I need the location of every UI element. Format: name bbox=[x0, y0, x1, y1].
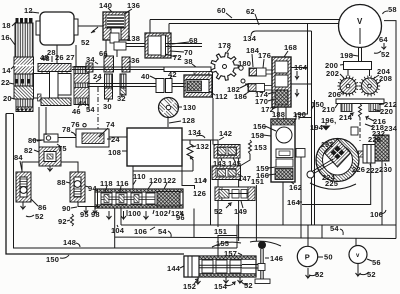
svg-text:64: 64 bbox=[379, 35, 388, 44]
label 26 bbox=[55, 53, 64, 62]
label 86 bbox=[31, 199, 47, 212]
svg-text:54: 54 bbox=[158, 227, 167, 236]
label 130 bbox=[177, 103, 196, 112]
svg-text:194: 194 bbox=[310, 123, 324, 132]
svg-text:96: 96 bbox=[176, 213, 185, 222]
svg-text:192: 192 bbox=[321, 142, 333, 149]
label 202 bbox=[326, 69, 344, 78]
svg-text:122: 122 bbox=[163, 176, 176, 185]
selector lever 146 bbox=[255, 241, 270, 284]
svg-text:128: 128 bbox=[182, 116, 195, 125]
svg-text:38: 38 bbox=[184, 57, 193, 66]
label 66 bbox=[99, 49, 108, 58]
wire motor to solenoid bbox=[78, 25, 103, 27]
shaft 38 bbox=[72, 67, 164, 70]
label 58 bbox=[383, 5, 397, 14]
svg-text:226: 226 bbox=[352, 165, 365, 174]
drain v 52 bbox=[356, 264, 376, 279]
svg-text:153: 153 bbox=[254, 143, 267, 152]
svg-text:100: 100 bbox=[128, 209, 141, 218]
labels 95 98 bbox=[80, 210, 100, 219]
wire 142 bbox=[190, 129, 232, 145]
label 152 bottom left bbox=[183, 279, 198, 291]
bearing 42 bbox=[166, 70, 177, 93]
svg-text:162: 162 bbox=[289, 183, 302, 192]
svg-text:157: 157 bbox=[224, 249, 237, 258]
svg-text:142: 142 bbox=[219, 129, 232, 138]
bearing 40 bbox=[141, 72, 164, 93]
svg-text:52: 52 bbox=[381, 50, 390, 59]
drain arrows bank1 bbox=[107, 211, 149, 219]
label 220 bbox=[374, 107, 393, 116]
svg-text:84: 84 bbox=[14, 153, 23, 162]
label 148 bbox=[63, 238, 80, 247]
shaft 24 lower bbox=[88, 84, 184, 87]
link lever to pump 112 bbox=[212, 72, 214, 99]
label 230 bbox=[379, 163, 392, 174]
svg-text:188: 188 bbox=[272, 110, 285, 119]
svg-text:24: 24 bbox=[93, 72, 102, 81]
svg-text:36: 36 bbox=[131, 56, 140, 65]
svg-text:40: 40 bbox=[141, 72, 150, 81]
shift valve bank 144 bbox=[184, 256, 258, 277]
flywheel clutch 224 bbox=[316, 139, 359, 182]
spring 153 bbox=[240, 140, 267, 166]
label 144 bbox=[167, 264, 184, 273]
svg-text:90: 90 bbox=[62, 204, 71, 213]
svg-text:220: 220 bbox=[380, 107, 393, 116]
svg-text:114: 114 bbox=[194, 176, 207, 185]
svg-text:26: 26 bbox=[55, 53, 64, 62]
crosshead 200 bbox=[325, 61, 372, 70]
label 214 bbox=[339, 113, 353, 122]
label 120 bbox=[148, 176, 162, 189]
label 124 bbox=[169, 209, 185, 218]
label 147 bbox=[238, 174, 251, 183]
pilot circle 80 bbox=[44, 134, 76, 142]
label 30 bbox=[103, 98, 112, 111]
wires left column bbox=[6, 107, 78, 172]
svg-text:74: 74 bbox=[106, 120, 115, 129]
label 114 bbox=[194, 176, 207, 185]
label 132 bbox=[192, 142, 209, 151]
bottom bus B bbox=[301, 225, 356, 246]
label 70 bbox=[170, 48, 193, 57]
svg-text:88: 88 bbox=[57, 178, 66, 187]
label 116 bbox=[116, 179, 129, 192]
label 74 bbox=[99, 120, 115, 137]
label 76 bbox=[71, 120, 86, 129]
svg-text:151: 151 bbox=[214, 227, 227, 236]
label 84 bbox=[14, 153, 23, 171]
svg-text:46: 46 bbox=[72, 107, 81, 116]
label 228 bbox=[368, 135, 381, 144]
svg-text:56: 56 bbox=[372, 258, 381, 267]
svg-text:98: 98 bbox=[91, 210, 100, 219]
label 224 bbox=[322, 173, 336, 182]
label 212 bbox=[379, 100, 397, 109]
arrow 52 solenoid bbox=[81, 27, 98, 47]
servo 74/24 bbox=[76, 129, 127, 147]
svg-text:70: 70 bbox=[184, 48, 193, 57]
svg-text:140: 140 bbox=[99, 1, 112, 10]
ground 52 left bbox=[21, 202, 44, 221]
label 14 bbox=[2, 66, 14, 75]
label 34 bbox=[86, 55, 98, 64]
label 178 bbox=[218, 41, 231, 52]
svg-text:76: 76 bbox=[71, 120, 80, 129]
svg-text:166: 166 bbox=[256, 171, 269, 180]
clutch slider bbox=[296, 149, 305, 158]
label 102 bbox=[153, 209, 168, 218]
frame 150 outer bbox=[6, 114, 184, 255]
label 156 bbox=[253, 122, 276, 131]
svg-text:12: 12 bbox=[24, 6, 33, 15]
label 216 bbox=[366, 116, 386, 126]
svg-text:116: 116 bbox=[116, 179, 129, 188]
valve 82 bbox=[39, 147, 61, 171]
wire connectors 168 down bbox=[278, 107, 286, 119]
V gauge 58 bbox=[339, 5, 382, 48]
label 78 bbox=[62, 125, 76, 136]
drain P 52 bbox=[306, 268, 324, 279]
svg-text:132: 132 bbox=[196, 142, 209, 151]
label 96 bbox=[176, 211, 185, 222]
svg-text:186: 186 bbox=[234, 92, 247, 101]
label 54 bottom bbox=[330, 224, 343, 235]
label 134 bbox=[243, 34, 257, 43]
label 54 manifold bbox=[158, 227, 171, 237]
label 18 bbox=[2, 21, 16, 30]
svg-text:149: 149 bbox=[234, 207, 247, 216]
motor 12 bbox=[24, 6, 78, 45]
pump P 50 bbox=[297, 246, 317, 266]
svg-text:78: 78 bbox=[62, 125, 71, 134]
wire solenoid to gear 66 bbox=[105, 40, 107, 56]
label 172 bbox=[261, 105, 277, 114]
label 27 bbox=[66, 53, 75, 62]
svg-text:158: 158 bbox=[251, 131, 264, 140]
svg-text:58: 58 bbox=[388, 5, 397, 14]
wire actuator down bbox=[381, 161, 383, 225]
valve 88 bbox=[70, 172, 85, 202]
svg-text:104: 104 bbox=[111, 226, 125, 235]
label 28 bbox=[47, 48, 56, 62]
label 164 bbox=[294, 63, 308, 96]
rack hatch under lever bbox=[194, 72, 209, 76]
shaft motor to spline column bbox=[75, 45, 77, 67]
svg-text:225: 225 bbox=[325, 179, 338, 188]
svg-text:130: 130 bbox=[183, 103, 196, 112]
svg-text:126: 126 bbox=[193, 189, 206, 198]
wire 90 bbox=[62, 202, 100, 213]
label 176 bbox=[258, 51, 271, 68]
label 72 bbox=[165, 53, 182, 62]
label 170 bbox=[255, 97, 274, 106]
svg-text:52: 52 bbox=[81, 38, 90, 47]
svg-text:150: 150 bbox=[46, 255, 59, 264]
damper box 214 bbox=[351, 127, 358, 135]
drain manifold under bank bbox=[115, 209, 396, 249]
label 100 bbox=[127, 209, 141, 218]
label 46 bbox=[72, 104, 81, 116]
svg-text:20: 20 bbox=[3, 94, 12, 103]
svg-text:164: 164 bbox=[287, 198, 301, 207]
valve block 168 bbox=[272, 57, 291, 107]
governor body bbox=[341, 104, 380, 121]
label 118 bbox=[100, 179, 113, 192]
shaft 44/54 dash-dot bbox=[88, 64, 90, 114]
svg-text:68: 68 bbox=[189, 36, 198, 45]
label 151 mid bbox=[251, 177, 264, 186]
label 234 bbox=[384, 124, 398, 133]
label 188 bbox=[272, 110, 285, 119]
label 192 bbox=[321, 142, 333, 149]
controller box 108 bbox=[127, 128, 182, 166]
svg-text:86: 86 bbox=[38, 203, 47, 212]
frame 148 inner bbox=[14, 114, 238, 249]
wire 164 drain bbox=[302, 163, 371, 205]
governor link dashed bbox=[359, 122, 361, 141]
resistor 132 bbox=[133, 140, 195, 189]
label 128 bbox=[169, 116, 195, 125]
pilot valve 182/186 bbox=[241, 79, 272, 92]
label 154 bbox=[214, 282, 235, 291]
label 50 bbox=[318, 253, 333, 262]
svg-text:62: 62 bbox=[246, 7, 255, 16]
label 24 bbox=[93, 72, 102, 82]
label 54 bbox=[86, 105, 95, 114]
label 68 bbox=[172, 36, 198, 45]
label 32 bbox=[117, 94, 126, 103]
svg-text:14: 14 bbox=[2, 66, 11, 75]
svg-text:60: 60 bbox=[217, 6, 226, 15]
label 174 bbox=[255, 90, 274, 99]
label 218 bbox=[365, 123, 384, 132]
svg-text:102: 102 bbox=[155, 209, 168, 218]
svg-text:30: 30 bbox=[103, 102, 112, 111]
label 82 bbox=[24, 146, 39, 155]
svg-text:52: 52 bbox=[244, 281, 253, 290]
clutch arm + pivot bbox=[307, 159, 334, 178]
governor bar 210 bbox=[322, 99, 384, 114]
label 110 bbox=[133, 172, 146, 185]
svg-text:190: 190 bbox=[293, 110, 306, 119]
label 106 bbox=[134, 227, 155, 236]
svg-text:198: 198 bbox=[340, 51, 353, 60]
label 62 bbox=[246, 7, 259, 25]
label 106 right bbox=[370, 210, 386, 219]
label 20 bbox=[3, 94, 15, 103]
label 166 bbox=[256, 171, 276, 180]
label 16 bbox=[1, 33, 15, 45]
gear 178 bbox=[211, 53, 238, 81]
svg-text:202: 202 bbox=[326, 69, 339, 78]
svg-text:118: 118 bbox=[100, 179, 113, 188]
valve 84 bbox=[16, 172, 31, 202]
gear 130 bbox=[159, 98, 179, 118]
svg-text:134: 134 bbox=[243, 34, 257, 43]
label 104 bbox=[111, 225, 125, 235]
label 52 valve149 bbox=[214, 203, 231, 216]
svg-text:110: 110 bbox=[133, 172, 146, 181]
label 136 bbox=[124, 1, 140, 14]
label 155 bbox=[216, 239, 229, 251]
label 140 bbox=[99, 1, 112, 12]
label 52 bottom mid bbox=[241, 281, 253, 290]
label 94 bbox=[85, 184, 97, 193]
svg-text:18: 18 bbox=[2, 21, 11, 30]
svg-text:22: 22 bbox=[1, 78, 10, 87]
label 52 right top bbox=[374, 50, 390, 59]
svg-text:136: 136 bbox=[127, 1, 140, 10]
line 62 bbox=[169, 24, 339, 34]
svg-text:75: 75 bbox=[58, 144, 67, 153]
svg-text:206: 206 bbox=[328, 90, 341, 99]
label 180 bbox=[238, 59, 251, 68]
labels 143 145 bbox=[213, 158, 241, 168]
svg-text:48: 48 bbox=[40, 53, 49, 62]
svg-text:210: 210 bbox=[322, 105, 335, 114]
svg-text:214: 214 bbox=[339, 113, 353, 122]
spring 92 bbox=[58, 214, 74, 226]
label 225 bbox=[325, 179, 338, 188]
svg-text:54: 54 bbox=[86, 105, 95, 114]
label 88 bbox=[57, 178, 70, 187]
label 44 bbox=[78, 99, 89, 108]
label 186 bbox=[234, 91, 250, 101]
solenoid 140/136 bbox=[103, 12, 129, 40]
label 24 servo bbox=[107, 135, 120, 144]
svg-text:82: 82 bbox=[24, 146, 33, 155]
lever bar bbox=[164, 67, 211, 72]
label 206 bbox=[328, 90, 344, 99]
label 168 bbox=[284, 43, 297, 57]
wire risers from lines 60/62 bbox=[294, 24, 315, 226]
svg-text:134: 134 bbox=[188, 128, 202, 137]
svg-text:176: 176 bbox=[258, 51, 271, 60]
gauge stem 196 bbox=[340, 48, 362, 62]
label 159 bbox=[256, 164, 276, 173]
label 222 bbox=[366, 164, 379, 175]
label 134 mid bbox=[188, 128, 205, 138]
svg-text:156: 156 bbox=[253, 122, 266, 131]
label 36 bbox=[127, 56, 140, 65]
svg-text:72: 72 bbox=[173, 53, 182, 62]
brake stack 14/16/18/20/22 bbox=[14, 18, 34, 112]
svg-text:230: 230 bbox=[379, 165, 392, 174]
svg-text:148: 148 bbox=[63, 238, 76, 247]
label 38 bbox=[184, 57, 196, 67]
bottom bus A bbox=[121, 224, 396, 226]
svg-text:52: 52 bbox=[367, 270, 376, 279]
svg-text:16: 16 bbox=[1, 33, 10, 42]
wire block down bbox=[282, 182, 284, 225]
wires mid column bbox=[211, 98, 257, 256]
label 164 low bbox=[287, 198, 302, 207]
label 182 bbox=[227, 84, 248, 94]
label 64 bbox=[379, 35, 388, 49]
label 56 bbox=[367, 258, 381, 267]
svg-text:106: 106 bbox=[134, 227, 147, 236]
svg-text:94: 94 bbox=[88, 184, 97, 193]
line 60 bbox=[150, 20, 339, 34]
svg-text:152: 152 bbox=[183, 282, 196, 291]
svg-text:92: 92 bbox=[58, 217, 67, 226]
svg-text:34: 34 bbox=[86, 55, 95, 64]
svg-text:54: 54 bbox=[330, 224, 339, 233]
wire 168 to risers bbox=[291, 68, 312, 85]
svg-text:52: 52 bbox=[35, 212, 44, 221]
svg-text:P: P bbox=[305, 253, 310, 262]
label 162 bbox=[289, 182, 302, 192]
label 108 bbox=[108, 148, 127, 157]
label 112 bbox=[209, 91, 228, 101]
motor v 56 bbox=[349, 246, 367, 264]
svg-text:144: 144 bbox=[167, 264, 181, 273]
pilot valve 147 bbox=[212, 166, 241, 180]
wire gear to box 108 bbox=[167, 116, 169, 127]
label 151 bottom bbox=[214, 227, 237, 236]
svg-text:95: 95 bbox=[80, 210, 89, 219]
label 208 bbox=[377, 74, 392, 84]
label 48 bbox=[40, 53, 50, 63]
label 232 bbox=[372, 129, 385, 138]
svg-text:155: 155 bbox=[216, 239, 229, 248]
clutch actuator 222/228 bbox=[359, 135, 390, 163]
svg-text:50: 50 bbox=[324, 253, 333, 262]
main valve bank 96 bbox=[95, 189, 183, 208]
governor gear right 204 bbox=[359, 70, 380, 97]
svg-text:146: 146 bbox=[270, 254, 283, 263]
arrow 194 bbox=[310, 122, 331, 132]
pump block 112 bbox=[184, 75, 212, 97]
wires box108 to valve bank bbox=[132, 166, 134, 189]
label 146 bbox=[265, 254, 283, 263]
label 122 bbox=[163, 176, 176, 189]
governor gear left 202 bbox=[337, 70, 358, 97]
svg-text:196,: 196, bbox=[321, 116, 336, 125]
label 126 bbox=[193, 189, 206, 198]
label 190 bbox=[293, 110, 306, 123]
valve 149 bbox=[215, 187, 255, 201]
svg-text:106: 106 bbox=[370, 210, 383, 219]
svg-text:138: 138 bbox=[127, 34, 140, 43]
right frame wire bbox=[384, 21, 396, 239]
svg-text:222: 222 bbox=[366, 166, 379, 175]
svg-text:178: 178 bbox=[218, 41, 231, 50]
label 149 bbox=[234, 201, 247, 216]
servo shaft 24 dash-dot bbox=[97, 87, 99, 133]
label 184 bbox=[246, 46, 260, 67]
link box 138 bbox=[110, 33, 145, 57]
label 80 bbox=[28, 136, 43, 145]
gear 34 bbox=[86, 63, 93, 72]
drain arrows bank2 bbox=[196, 277, 243, 284]
label 226 bbox=[352, 163, 365, 174]
label 157 bbox=[224, 249, 242, 258]
svg-text:27: 27 bbox=[66, 53, 75, 62]
label 60 bbox=[217, 6, 232, 18]
svg-text:120: 120 bbox=[149, 176, 162, 185]
svg-text:147: 147 bbox=[238, 174, 251, 183]
svg-text:208: 208 bbox=[379, 74, 392, 83]
pilot valve 143/145 bbox=[214, 145, 240, 159]
gears 34/36 on shaft 38 bbox=[104, 56, 130, 99]
svg-text:32: 32 bbox=[117, 94, 126, 103]
pilot valve 184/180 bbox=[239, 66, 272, 76]
svg-text:v: v bbox=[356, 253, 360, 259]
